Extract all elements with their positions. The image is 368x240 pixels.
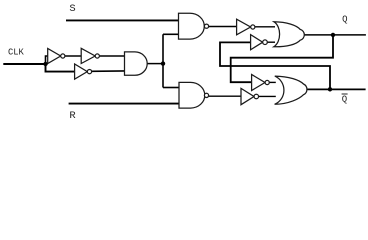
svg-text:CLK: CLK	[8, 48, 25, 58]
svg-text:Q: Q	[342, 95, 347, 105]
svg-text:S: S	[69, 3, 75, 15]
svg-text:Q: Q	[342, 15, 347, 25]
svg-text:R: R	[69, 110, 76, 122]
